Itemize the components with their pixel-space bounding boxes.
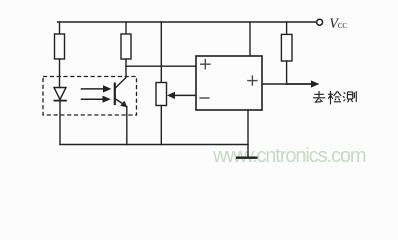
wiper arrow to pot (167, 92, 196, 99)
去 (313, 91, 325, 102)
wire pot top drop (160, 22, 162, 83)
wire op-amp output (262, 83, 313, 85)
resistor R1 (left) (55, 34, 65, 59)
检 (328, 91, 341, 104)
terminal Vcc circle (317, 19, 323, 25)
wire R1 bottom to LED anode (59, 59, 61, 88)
wire R3 bottom to output node (286, 61, 288, 84)
LED D1 (triangle) (54, 88, 66, 100)
output arrow 去检测 (287, 80, 320, 87)
label - input (199, 97, 209, 99)
resistor R3 (right) (281, 34, 292, 61)
wire bottom ground rail (60, 144, 248, 146)
wire pot bottom to ground rail (160, 106, 162, 145)
wire op-amp ground pin (247, 110, 249, 158)
optocoupler dashed box (43, 77, 137, 116)
svg-text:www.cntronics.com: www.cntronics.com (212, 145, 366, 167)
resistor R2 (second) (121, 34, 131, 59)
label + output (247, 75, 257, 85)
测 (343, 91, 356, 102)
phototransistor Q1 emitter with arrow (115, 99, 128, 108)
svg-text:CC: CC (338, 22, 348, 30)
ground (236, 156, 258, 158)
wire R2 top drop (125, 22, 127, 34)
wire node A to op-amp + input (126, 65, 196, 67)
light arrow upper (81, 85, 112, 92)
wire node A down to phototransistor collector (115, 66, 126, 88)
wire left resistor top drop (59, 22, 61, 34)
wire op-amp V+ pin to top rail (249, 22, 251, 56)
light arrow lower (81, 96, 111, 103)
potentiometer RP body (156, 83, 167, 106)
wire right resistor top drop (286, 22, 288, 34)
label Vcc (329, 16, 347, 32)
LED cathode bar (54, 100, 67, 102)
label + input (200, 59, 211, 70)
phototransistor Q1 base bar (114, 83, 116, 106)
label 去检测 (hand-drawn glyphs) (313, 91, 356, 104)
wire LED cathode down (59, 101, 61, 145)
op-amp U1 comparator box (196, 56, 262, 110)
wire top rail Vcc (58, 21, 317, 23)
wire R2 bottom to node A (125, 59, 127, 66)
wire emitter down (126, 107, 128, 145)
